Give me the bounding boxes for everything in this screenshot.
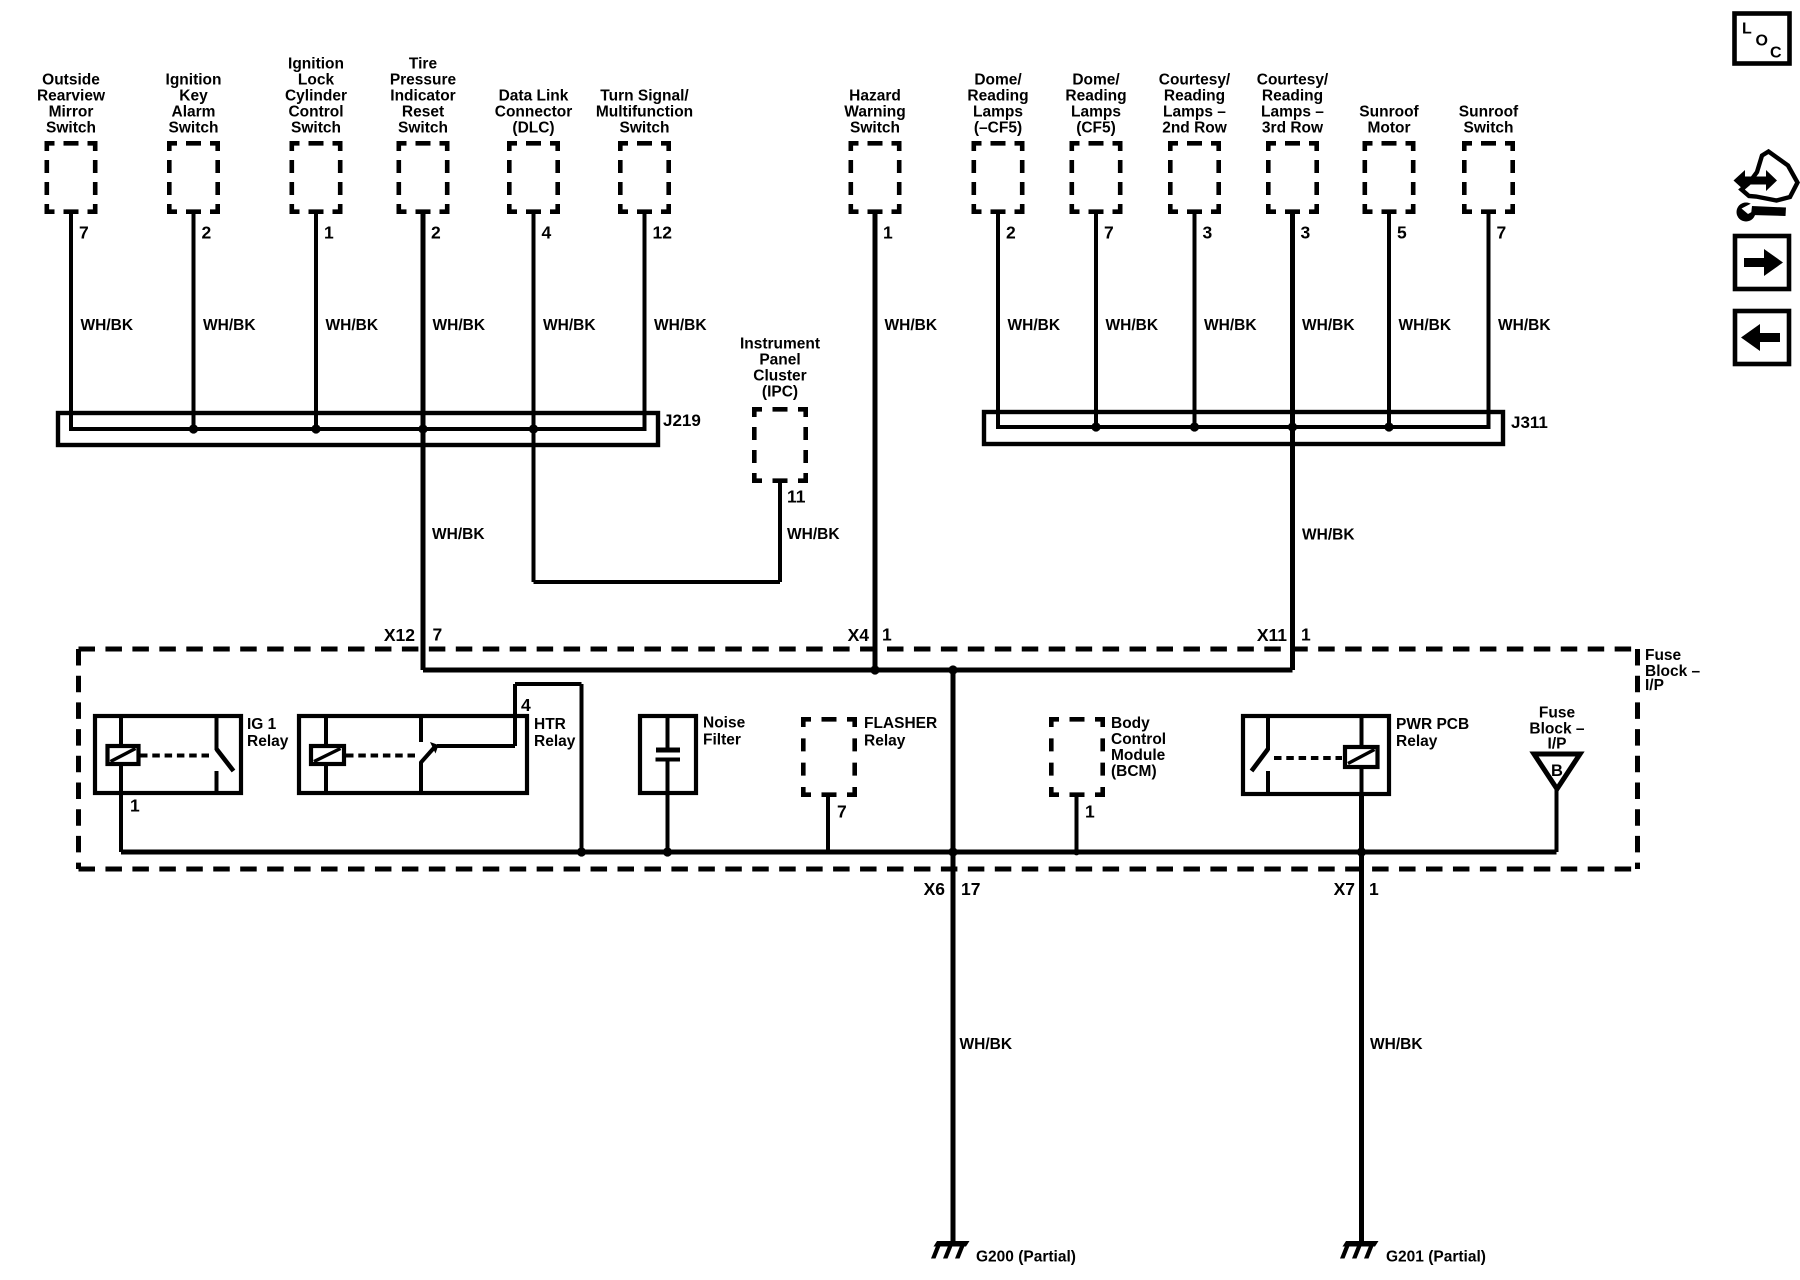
svg-text:WH/BK: WH/BK xyxy=(543,317,596,334)
svg-text:Courtesy/: Courtesy/ xyxy=(1159,72,1231,89)
svg-text:Connector: Connector xyxy=(495,104,573,121)
svg-text:2: 2 xyxy=(202,223,212,243)
pin 4 label of HTR relay xyxy=(521,695,531,715)
wire: HTR relay pin 4 output down to ground bus xyxy=(577,684,586,857)
connector label X11 pin 1 xyxy=(1257,625,1311,646)
svg-text:1: 1 xyxy=(1369,879,1379,899)
pin 5 label of sunroof motor connector xyxy=(1397,223,1407,243)
WH/BK wire color label at x=1096.0 xyxy=(1106,317,1159,334)
svg-text:Alarm: Alarm xyxy=(172,104,216,121)
svg-text:Control: Control xyxy=(288,104,343,121)
courtesy reading lamps 2nd row connector xyxy=(1168,141,1221,214)
pin 3 label of courtesy reading lamps 3rd row connector xyxy=(1301,223,1311,243)
svg-text:Module: Module xyxy=(1111,747,1166,764)
svg-text:1: 1 xyxy=(882,625,892,645)
svg-text:Data Link: Data Link xyxy=(499,88,569,105)
svg-text:Fuse: Fuse xyxy=(1539,705,1576,722)
tire pressure indicator reset switch connector xyxy=(397,141,450,214)
ignition key alarm switch connector xyxy=(167,141,220,214)
label PWR PCB Relay xyxy=(1396,716,1469,750)
svg-text:Tire: Tire xyxy=(409,56,438,73)
pin 11 label of IPC xyxy=(787,487,806,507)
svg-text:Motor: Motor xyxy=(1367,120,1410,137)
svg-text:Fuse: Fuse xyxy=(1645,647,1682,664)
WH/BK wire color label at x=1488.5 xyxy=(1498,317,1551,334)
svg-text:4: 4 xyxy=(542,223,552,243)
svg-text:Ignition: Ignition xyxy=(288,56,344,73)
svg-text:WH/BK: WH/BK xyxy=(432,526,485,543)
wire: X6 pin 17 drop from feeder through ground bus to G200 xyxy=(948,670,957,1243)
junction dot X4 wire joins feeder xyxy=(870,665,879,674)
wire: outside rearview mirror switch pin 7 to J219 xyxy=(69,214,73,431)
label HTR Relay xyxy=(534,716,576,750)
svg-text:3: 3 xyxy=(1301,223,1311,243)
svg-text:X6: X6 xyxy=(924,879,946,899)
pin 1 label of BCM xyxy=(1085,802,1095,822)
WH/BK wire color label at x=1292.5 xyxy=(1302,317,1355,334)
svg-text:Switch: Switch xyxy=(620,120,670,137)
connector label X4 pin 1 xyxy=(848,625,892,646)
fuse block I/P feed triangle B xyxy=(1534,754,1580,789)
svg-text:X11: X11 xyxy=(1257,625,1287,645)
svg-text:Multifunction: Multifunction xyxy=(596,104,693,121)
svg-text:Switch: Switch xyxy=(46,120,96,137)
svg-text:5: 5 xyxy=(1397,223,1407,243)
wire: triangle stem to ground bus right end xyxy=(1555,789,1559,852)
svg-text:(IPC): (IPC) xyxy=(762,384,798,401)
svg-text:1: 1 xyxy=(1301,625,1311,645)
svg-text:Indicator: Indicator xyxy=(390,88,455,105)
svg-text:Switch: Switch xyxy=(1464,120,1514,137)
svg-text:WH/BK: WH/BK xyxy=(787,526,840,543)
svg-text:O: O xyxy=(1756,33,1768,50)
internal ground bus wire inside fuse block xyxy=(121,850,1557,855)
svg-text:WH/BK: WH/BK xyxy=(326,317,379,334)
svg-text:I/P: I/P xyxy=(1645,677,1664,694)
svg-text:Relay: Relay xyxy=(534,733,576,750)
svg-text:Cluster: Cluster xyxy=(753,368,806,385)
icon next-page arrow box xyxy=(1735,236,1789,289)
fuse block I/P outer label xyxy=(1645,647,1701,694)
WH/BK wire color label at x=316.0 xyxy=(326,317,379,334)
svg-text:Reading: Reading xyxy=(1164,88,1225,105)
svg-text:(–CF5): (–CF5) xyxy=(974,120,1022,137)
pin 1 label of ignition lock cylinder control switch connector xyxy=(324,223,334,243)
icon diagnostic redirect (double arrow, hollow arrow, wrench) xyxy=(1734,152,1798,222)
wire: ignition key alarm switch pin 2 to J219 xyxy=(192,214,196,431)
svg-text:J219: J219 xyxy=(663,411,701,430)
svg-text:Ignition: Ignition xyxy=(166,72,222,89)
WH/BK wire color label at x=423.0 xyxy=(433,317,486,334)
wire: noise filter down to ground bus xyxy=(663,793,672,857)
svg-text:Rearview: Rearview xyxy=(37,88,106,105)
svg-text:Turn Signal/: Turn Signal/ xyxy=(600,88,689,105)
ignition lock cylinder control switch connector xyxy=(290,141,343,214)
svg-text:Sunroof: Sunroof xyxy=(1359,104,1419,121)
body control module BCM connector xyxy=(1049,717,1105,797)
svg-text:(CF5): (CF5) xyxy=(1076,120,1116,137)
svg-text:Courtesy/: Courtesy/ xyxy=(1257,72,1329,89)
svg-text:Sunroof: Sunroof xyxy=(1459,104,1519,121)
wire: DLC pin 4 through J219 down then right to IPC pin 11 xyxy=(532,214,536,582)
svg-text:7: 7 xyxy=(837,802,847,822)
svg-text:2: 2 xyxy=(431,223,441,243)
label J311 xyxy=(1511,413,1548,432)
svg-text:Reading: Reading xyxy=(1065,88,1126,105)
hazard warning switch connector xyxy=(849,141,902,214)
connector label X12 pin 7 xyxy=(384,625,442,646)
svg-text:Panel: Panel xyxy=(759,352,800,369)
svg-text:Reading: Reading xyxy=(967,88,1028,105)
svg-text:Instrument: Instrument xyxy=(740,336,820,353)
svg-text:WH/BK: WH/BK xyxy=(1370,1036,1423,1053)
wire: turn signal/multifunction switch pin 12 to J219 xyxy=(643,214,647,431)
connector label X7 pin 1 xyxy=(1334,879,1379,899)
pin 7 label of sunroof switch connector xyxy=(1497,223,1507,243)
svg-text:7: 7 xyxy=(1497,223,1507,243)
ground G201 xyxy=(1340,1241,1379,1259)
wire: IG 1 relay pin 1 down to ground bus xyxy=(119,793,123,852)
svg-text:Filter: Filter xyxy=(703,732,741,749)
icon previous-page arrow box xyxy=(1735,311,1789,364)
splice pack J219 xyxy=(58,413,658,445)
pin 7 label of dome reading lamps CF5 connector xyxy=(1104,223,1114,243)
FLASHER relay connector xyxy=(801,717,857,797)
svg-text:(DLC): (DLC) xyxy=(512,120,554,137)
outside rearview mirror switch connector xyxy=(45,141,98,214)
relay PWR PCB xyxy=(1243,716,1389,794)
pin 1 label of IG 1 relay xyxy=(130,796,140,816)
relay IG 1 xyxy=(95,716,241,793)
label G201 (Partial) xyxy=(1386,1249,1486,1266)
sunroof motor connector xyxy=(1363,141,1416,214)
wire: sunroof switch pin 7 to J311 xyxy=(1487,214,1491,429)
svg-text:G200 (Partial): G200 (Partial) xyxy=(976,1249,1076,1266)
svg-text:Warning: Warning xyxy=(844,104,905,121)
svg-text:Switch: Switch xyxy=(291,120,341,137)
svg-text:I/P: I/P xyxy=(1548,736,1567,753)
svg-text:WH/BK: WH/BK xyxy=(81,317,134,334)
data link connector DLC xyxy=(507,141,560,214)
pin 7 label of outside rearview mirror switch connector xyxy=(79,223,89,243)
WH/BK wire color label at x=1194.5 xyxy=(1204,317,1257,334)
junction dots on J311 xyxy=(1091,422,1100,431)
svg-text:Lamps –: Lamps – xyxy=(1163,104,1226,121)
wire: tire pressure indicator reset switch pin 2 through J219 down to fuse block X12 xyxy=(421,214,426,670)
label Fuse Block I/P (triangle) xyxy=(1529,705,1585,753)
noise filter capacitor xyxy=(640,716,696,793)
svg-text:1: 1 xyxy=(130,796,140,816)
svg-text:Lock: Lock xyxy=(298,72,335,89)
svg-text:Reset: Reset xyxy=(402,104,444,121)
connector label X6 pin 17 xyxy=(924,879,981,899)
svg-text:WH/BK: WH/BK xyxy=(1302,527,1355,544)
WH/BK wire color label at x=998.0 xyxy=(1008,317,1061,334)
svg-text:Relay: Relay xyxy=(1396,733,1438,750)
label FLASHER Relay xyxy=(864,715,937,750)
svg-text:B: B xyxy=(1551,762,1563,780)
WH/BK wire color label at x=533.5 xyxy=(543,317,596,334)
svg-text:Mirror: Mirror xyxy=(49,104,94,121)
svg-text:Key: Key xyxy=(179,88,208,105)
courtesy reading lamps 3rd row connector xyxy=(1266,141,1319,214)
wire: sunroof motor pin 5 to J311 xyxy=(1387,214,1391,429)
junction dots on J219 xyxy=(189,424,198,433)
svg-text:Lamps: Lamps xyxy=(1071,104,1121,121)
svg-text:7: 7 xyxy=(79,223,89,243)
label G200 (Partial) xyxy=(976,1249,1076,1266)
svg-text:X12: X12 xyxy=(384,625,415,645)
pin 2 label of tire pressure indicator reset switch connector xyxy=(431,223,441,243)
svg-text:PWR PCB: PWR PCB xyxy=(1396,716,1469,733)
WH/BK wire color label at x=644.5 xyxy=(654,317,707,334)
svg-text:3rd Row: 3rd Row xyxy=(1262,120,1324,137)
svg-text:WH/BK: WH/BK xyxy=(885,317,938,334)
WH/BK label on X11 wire xyxy=(1302,527,1355,544)
junction dot X6 drop joins feeder xyxy=(948,665,957,674)
svg-text:Relay: Relay xyxy=(247,733,289,750)
svg-text:(BCM): (BCM) xyxy=(1111,763,1157,780)
svg-text:HTR: HTR xyxy=(534,716,566,733)
pin 1 label of hazard warning switch connector xyxy=(883,223,893,243)
svg-text:17: 17 xyxy=(961,879,980,899)
splice pack J311 xyxy=(984,412,1503,444)
svg-text:J311: J311 xyxy=(1511,413,1548,432)
svg-text:WH/BK: WH/BK xyxy=(203,317,256,334)
wire: IPC pin 11 down to DLC branch xyxy=(778,483,782,582)
svg-text:2: 2 xyxy=(1006,223,1016,243)
dome reading lamps CF5 connector xyxy=(1070,141,1123,214)
WH/BK label on X12 wire xyxy=(432,526,485,543)
wire: dome/reading lamps (-CF5) pin 2 to J311 xyxy=(996,214,1000,429)
svg-text:WH/BK: WH/BK xyxy=(433,317,486,334)
WH/BK wire color label at x=875.0 xyxy=(885,317,938,334)
fuse block I/P dashed border xyxy=(79,649,1638,869)
svg-text:Pressure: Pressure xyxy=(390,72,457,89)
pin 12 label of turn signal multifunction switch connector xyxy=(653,223,673,243)
svg-text:Noise: Noise xyxy=(703,715,746,732)
svg-text:WH/BK: WH/BK xyxy=(1498,317,1551,334)
svg-text:WH/BK: WH/BK xyxy=(1302,317,1355,334)
instrument panel cluster IPC connector xyxy=(752,407,808,483)
svg-text:Switch: Switch xyxy=(169,120,219,137)
svg-text:7: 7 xyxy=(1104,223,1114,243)
svg-text:WH/BK: WH/BK xyxy=(1106,317,1159,334)
svg-text:1: 1 xyxy=(883,223,893,243)
svg-text:11: 11 xyxy=(787,487,806,507)
svg-text:X7: X7 xyxy=(1334,879,1355,899)
wire: hazard warning switch pin 1 down to fuse block X4 xyxy=(873,214,878,670)
svg-text:C: C xyxy=(1770,45,1782,62)
label Noise Filter xyxy=(703,715,746,749)
WH/BK wire color label at x=71.0 xyxy=(81,317,134,334)
WH/BK wire color label at x=193.5 xyxy=(203,317,256,334)
svg-text:Relay: Relay xyxy=(864,733,906,750)
WH/BK label on G201 wire xyxy=(1370,1036,1423,1053)
svg-text:FLASHER: FLASHER xyxy=(864,715,937,732)
wire: dome/reading lamps (CF5) pin 7 to J311 xyxy=(1094,214,1098,429)
svg-text:WH/BK: WH/BK xyxy=(960,1036,1013,1053)
wire: BCM pin 1 down to ground bus xyxy=(1073,797,1080,855)
sunroof switch connector xyxy=(1462,141,1515,214)
pin 4 label of data link connector DLC xyxy=(542,223,552,243)
svg-text:WH/BK: WH/BK xyxy=(654,317,707,334)
wire: FLASHER relay pin 7 down to ground bus xyxy=(826,797,830,852)
svg-text:Switch: Switch xyxy=(398,120,448,137)
svg-text:Lamps: Lamps xyxy=(973,104,1023,121)
WH/BK label on IPC wire xyxy=(787,526,840,543)
svg-text:WH/BK: WH/BK xyxy=(1008,317,1061,334)
label J219 xyxy=(663,411,701,430)
svg-text:L: L xyxy=(1742,21,1752,38)
svg-text:Body: Body xyxy=(1111,715,1150,732)
wire: courtesy/reading lamps 3rd row pin 3 through J311 down to fuse block X11 xyxy=(1290,214,1295,670)
svg-text:WH/BK: WH/BK xyxy=(1399,317,1452,334)
icon LOC box xyxy=(1735,14,1790,64)
WH/BK label on G200 wire xyxy=(960,1036,1013,1053)
WH/BK wire color label at x=1389.0 xyxy=(1399,317,1452,334)
svg-text:WH/BK: WH/BK xyxy=(1204,317,1257,334)
svg-text:2nd Row: 2nd Row xyxy=(1162,120,1228,137)
svg-text:Dome/: Dome/ xyxy=(1072,72,1120,89)
svg-text:Control: Control xyxy=(1111,731,1166,748)
svg-text:Switch: Switch xyxy=(850,120,900,137)
svg-text:7: 7 xyxy=(433,625,443,645)
relay HTR xyxy=(299,682,582,793)
pin 7 label of FLASHER relay xyxy=(837,802,847,822)
svg-text:Dome/: Dome/ xyxy=(974,72,1022,89)
svg-text:G201 (Partial): G201 (Partial) xyxy=(1386,1249,1486,1266)
svg-text:4: 4 xyxy=(521,695,531,715)
wire: ignition lock cylinder control switch pin 1 to J219 xyxy=(314,214,318,431)
svg-text:X4: X4 xyxy=(848,625,870,645)
ground G200 xyxy=(931,1241,970,1259)
dome reading lamps -CF5 connector xyxy=(972,141,1025,214)
svg-text:Outside: Outside xyxy=(42,72,100,89)
svg-text:Hazard: Hazard xyxy=(849,88,901,105)
turn signal multifunction switch connector xyxy=(618,141,671,214)
svg-text:1: 1 xyxy=(1085,802,1095,822)
wire: X7 pin 1 drop from PWR PCB relay coil through ground bus to G201 xyxy=(1357,794,1366,1243)
svg-text:12: 12 xyxy=(653,223,673,243)
pin 2 label of dome reading lamps -CF5 connector xyxy=(1006,223,1016,243)
wire: courtesy/reading lamps 2nd row pin 3 to J311 xyxy=(1193,214,1197,429)
svg-text:1: 1 xyxy=(324,223,334,243)
label IG 1 Relay xyxy=(247,716,289,750)
svg-text:Lamps –: Lamps – xyxy=(1261,104,1324,121)
pin 2 label of ignition key alarm switch connector xyxy=(202,223,212,243)
svg-text:IG 1: IG 1 xyxy=(247,716,277,733)
svg-text:3: 3 xyxy=(1203,223,1213,243)
svg-text:Reading: Reading xyxy=(1262,88,1323,105)
svg-text:Cylinder: Cylinder xyxy=(285,88,347,105)
pin 3 label of courtesy reading lamps 2nd row connector xyxy=(1203,223,1213,243)
